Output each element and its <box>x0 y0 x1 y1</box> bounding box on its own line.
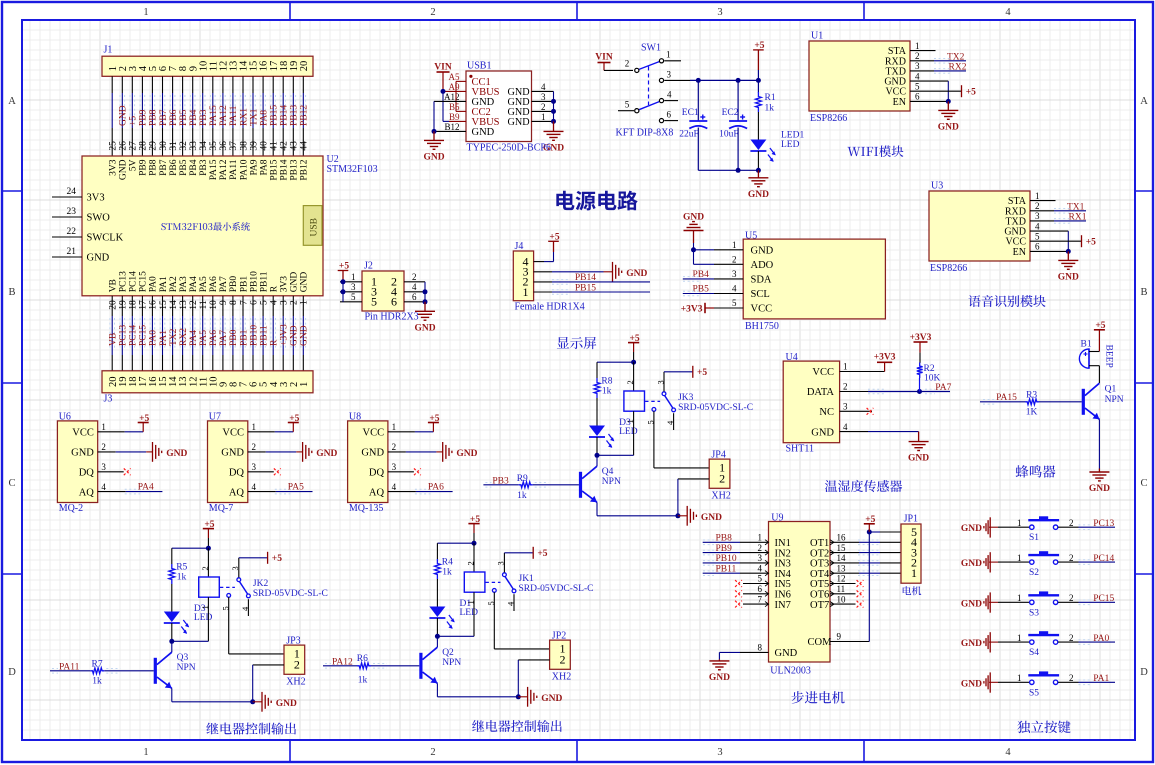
svg-text:EN: EN <box>1013 247 1026 258</box>
net label PC14 <box>129 318 131 350</box>
svg-text:VCC: VCC <box>72 428 94 439</box>
wire J1 pin 8 to U2 pin 32 <box>182 76 184 93</box>
net label PA0 <box>149 318 151 350</box>
svg-text:R: R <box>270 339 280 346</box>
svg-text:3: 3 <box>717 7 722 18</box>
svg-text:SCL: SCL <box>751 289 770 300</box>
wire J1 pin 19 to U2 pin 43 <box>292 76 294 93</box>
svg-text:PA11: PA11 <box>229 105 239 126</box>
net label PA7 <box>220 318 222 350</box>
U9 IN7 stub no-erc <box>743 603 769 605</box>
svg-text:18: 18 <box>129 300 139 310</box>
ground sideways at rail <box>518 696 527 698</box>
svg-text:15: 15 <box>837 543 847 553</box>
svg-text:NPN: NPN <box>1105 395 1124 405</box>
svg-text:PA0: PA0 <box>1093 634 1109 644</box>
svg-text:SHT11: SHT11 <box>786 443 815 454</box>
svg-text:XH2: XH2 <box>711 491 730 502</box>
section label 温湿度传感器 <box>825 480 902 492</box>
svg-text:TX2: TX2 <box>169 328 179 346</box>
svg-text:1: 1 <box>300 300 310 305</box>
svg-text:PB13: PB13 <box>290 105 300 126</box>
svg-text:4: 4 <box>1005 747 1011 758</box>
svg-text:4: 4 <box>915 71 920 81</box>
svg-text:TX1: TX1 <box>249 108 259 126</box>
svg-text:PB6: PB6 <box>169 159 179 176</box>
svg-text:R1: R1 <box>765 93 776 103</box>
svg-text:USB1: USB1 <box>467 61 491 72</box>
relay switch contacts JK3 <box>645 400 660 402</box>
svg-text:2: 2 <box>625 59 630 69</box>
svg-text:PA15: PA15 <box>209 159 219 180</box>
svg-text:5: 5 <box>625 100 630 110</box>
transistor Q3 NPN <box>154 658 157 684</box>
svg-text:2: 2 <box>719 472 725 486</box>
svg-text:PA10: PA10 <box>239 159 249 180</box>
svg-text:GND: GND <box>414 323 435 333</box>
svg-text:PB4: PB4 <box>693 270 710 280</box>
svg-text:9: 9 <box>837 632 842 642</box>
wire USB1 gnd bus right <box>553 91 555 121</box>
resistor R8 1k <box>596 362 598 378</box>
svg-text:2: 2 <box>252 442 257 452</box>
svg-text:PA7: PA7 <box>219 330 229 346</box>
power +5 sideways <box>532 547 534 559</box>
wire J1 pin 10 to U2 pin 34 <box>202 76 204 93</box>
svg-text:PB1: PB1 <box>239 276 249 293</box>
U2 title text <box>161 222 250 231</box>
wire U2 pin 12 to J3 <box>192 296 194 316</box>
wire net PA15 with R3 <box>980 401 1025 403</box>
svg-text:8: 8 <box>758 643 763 653</box>
svg-text:PB15: PB15 <box>270 105 280 126</box>
svg-text:+5: +5 <box>1086 238 1096 248</box>
svg-text:PC15: PC15 <box>1093 594 1114 604</box>
svg-text:PB3: PB3 <box>492 476 509 486</box>
wire U8 GND <box>388 451 406 453</box>
MCU U2 STM32F103 <box>82 156 323 296</box>
svg-text:5: 5 <box>1035 231 1040 241</box>
U9 OT7 stub no-erc <box>830 603 856 605</box>
svg-text:16: 16 <box>149 300 159 310</box>
svg-text:20: 20 <box>299 61 310 72</box>
svg-text:+3V3: +3V3 <box>874 352 896 362</box>
LED D3 <box>171 584 173 612</box>
wire U2 pin 6 to J3 <box>252 296 254 316</box>
section label 继电器控制输出 (2) <box>472 720 562 732</box>
net label TX2 <box>169 318 171 350</box>
svg-text:B12: B12 <box>444 122 459 132</box>
svg-text:GND: GND <box>626 269 647 279</box>
svg-text:R7: R7 <box>92 659 103 669</box>
ground <box>947 101 949 110</box>
transistor Q1 NPN <box>1098 366 1100 383</box>
svg-text:22uF: 22uF <box>679 130 699 140</box>
svg-text:PA12: PA12 <box>219 159 229 180</box>
svg-text:JP1: JP1 <box>904 513 918 524</box>
svg-text:24: 24 <box>67 187 77 197</box>
svg-text:PB9: PB9 <box>716 544 733 554</box>
wire J1 pin 12 to U2 pin 36 <box>222 76 224 93</box>
LED D1 <box>436 579 438 607</box>
svg-text:GND: GND <box>1089 484 1110 494</box>
svg-text:3: 3 <box>1035 211 1040 221</box>
svg-text:GND: GND <box>751 246 774 257</box>
svg-text:PB5: PB5 <box>693 285 710 295</box>
U4 NC stub with no-erc <box>840 410 872 412</box>
svg-text:DQ: DQ <box>79 468 95 479</box>
svg-text:PB3: PB3 <box>199 109 209 126</box>
svg-text:6: 6 <box>758 584 763 594</box>
connector J3 <box>102 371 313 393</box>
net label PB11 <box>260 318 262 350</box>
wire emitter to rail <box>436 683 438 697</box>
wire J1 pin 3 to U2 pin 27 <box>131 76 133 93</box>
svg-text:B: B <box>8 287 15 298</box>
svg-text:14: 14 <box>169 300 179 310</box>
switch S1 <box>1030 525 1034 529</box>
svg-text:GND: GND <box>961 639 982 649</box>
wire LED to coil bottom <box>437 635 474 637</box>
svg-text:GND: GND <box>748 190 769 200</box>
USB1 right pin 4 <box>532 90 554 92</box>
svg-text:Q2: Q2 <box>442 648 454 658</box>
svg-text:B: B <box>1140 287 1147 298</box>
wire U2 pin 14 to J3 <box>172 296 174 316</box>
net label PB0 <box>230 318 232 350</box>
svg-text:LED: LED <box>619 427 638 437</box>
svg-text:1k: 1k <box>517 491 527 501</box>
svg-text:LED: LED <box>194 613 213 623</box>
svg-text:COM: COM <box>808 637 833 648</box>
svg-text:GND: GND <box>423 152 444 162</box>
svg-text:B5: B5 <box>449 102 460 112</box>
SW1 stubs <box>664 60 681 62</box>
svg-text:32: 32 <box>179 141 189 151</box>
svg-text:35: 35 <box>209 141 219 151</box>
capacitor EC2 10uF <box>737 80 739 121</box>
svg-text:PA15: PA15 <box>209 105 219 126</box>
svg-text:2: 2 <box>1069 518 1074 528</box>
svg-text:GND: GND <box>361 448 384 459</box>
svg-text:PB4: PB4 <box>189 159 199 176</box>
svg-text:1k: 1k <box>442 568 452 578</box>
svg-text:5: 5 <box>732 298 737 308</box>
svg-text:EC2: EC2 <box>722 108 739 118</box>
svg-text:R3: R3 <box>1026 390 1037 400</box>
svg-text:PA15: PA15 <box>996 393 1017 403</box>
svg-text:B1: B1 <box>1081 339 1092 349</box>
svg-text:2: 2 <box>101 442 106 452</box>
svg-text:Q4: Q4 <box>602 467 614 477</box>
svg-text:S1: S1 <box>1029 533 1039 543</box>
svg-text:7: 7 <box>239 300 249 305</box>
svg-text:3: 3 <box>392 462 397 472</box>
svg-text:PA4: PA4 <box>189 330 199 346</box>
svg-text:29: 29 <box>149 141 159 151</box>
svg-text:25: 25 <box>109 141 119 151</box>
svg-text:2: 2 <box>541 102 546 112</box>
svg-text:SWCLK: SWCLK <box>87 233 124 244</box>
wire S2 pin1 <box>989 561 998 563</box>
wire +5 node at JK2 <box>172 547 209 549</box>
svg-text:+5: +5 <box>966 88 976 98</box>
svg-text:26: 26 <box>119 141 129 151</box>
U8 DQ stub no-erc <box>388 471 414 473</box>
svg-text:PB7: PB7 <box>159 109 169 126</box>
power +5 sideways <box>267 552 269 564</box>
svg-text:PC15: PC15 <box>139 325 149 346</box>
svg-text:Pin HDR2X3: Pin HDR2X3 <box>365 312 419 323</box>
svg-text:PB11: PB11 <box>259 325 269 346</box>
svg-text:PC14: PC14 <box>1093 554 1114 564</box>
svg-text:1: 1 <box>541 112 546 122</box>
ground <box>1067 251 1069 260</box>
svg-text:LED1: LED1 <box>781 131 804 141</box>
USB1 right pin 3 <box>532 100 554 102</box>
svg-text:ESP8266: ESP8266 <box>810 113 847 124</box>
net label PC15 <box>139 318 141 350</box>
svg-text:GND: GND <box>1058 272 1079 282</box>
svg-text:+5: +5 <box>697 368 707 378</box>
wire U2 pin 13 to J3 <box>182 296 184 316</box>
wire U8 VCC to +5 <box>388 431 415 433</box>
wire J1 pin 16 to U2 pin 40 <box>262 76 264 93</box>
svg-text:3: 3 <box>252 462 257 472</box>
svg-text:1: 1 <box>351 272 356 282</box>
wire U2 pin 7 to J3 <box>242 296 244 316</box>
svg-text:5V: 5V <box>129 159 139 171</box>
svg-text:3: 3 <box>101 462 106 472</box>
svg-text:PB15: PB15 <box>270 159 280 180</box>
svg-text:7: 7 <box>758 594 763 604</box>
svg-text:PB9: PB9 <box>139 109 149 126</box>
svg-text:D: D <box>1140 667 1148 678</box>
svg-text:3: 3 <box>915 61 920 71</box>
wire net PB15 <box>534 291 552 293</box>
USB sub-box on U2 <box>303 206 322 246</box>
B1 terminals <box>1089 351 1099 353</box>
wire net RX2 <box>910 70 934 72</box>
svg-text:PB7: PB7 <box>159 159 169 176</box>
svg-text:6: 6 <box>667 110 672 120</box>
svg-text:3V3: 3V3 <box>280 276 290 293</box>
svg-text:DATA: DATA <box>807 387 835 398</box>
svg-text:PA6: PA6 <box>209 276 219 292</box>
svg-text:2: 2 <box>915 51 920 61</box>
wire U2 pin 9 to J3 <box>222 296 224 316</box>
section label 语音识别模块 <box>968 295 1045 307</box>
ground above U5 (inverted) <box>693 231 695 244</box>
svg-text:ESP8266: ESP8266 <box>930 263 967 274</box>
svg-text:GND: GND <box>316 449 337 459</box>
wire U2 pin 17 to J3 <box>141 296 143 316</box>
svg-text:PA7: PA7 <box>935 383 951 393</box>
svg-text:1: 1 <box>915 41 920 51</box>
svg-text:39: 39 <box>249 141 259 151</box>
relay coil JK2 <box>207 548 209 577</box>
U9 IN5 stub no-erc <box>743 583 769 585</box>
ground at J2 <box>424 302 426 312</box>
svg-text:MQ-135: MQ-135 <box>349 503 383 514</box>
svg-text:3V3: 3V3 <box>109 159 119 176</box>
svg-text:PC13: PC13 <box>119 271 129 292</box>
svg-text:PA8: PA8 <box>259 110 269 126</box>
wire S5 pin1 <box>989 681 998 683</box>
svg-text:DQ: DQ <box>229 468 245 479</box>
svg-text:XH2: XH2 <box>286 677 305 688</box>
svg-text:PA5: PA5 <box>199 276 209 292</box>
svg-text:PB10: PB10 <box>716 554 737 564</box>
wire net PC13 <box>1058 526 1078 528</box>
wire U2 pin 1 to J3 <box>302 296 304 316</box>
net label GND <box>300 318 302 350</box>
wire U2 pin 5 to J3 <box>262 296 264 316</box>
svg-text:AQ: AQ <box>79 487 95 498</box>
wire net PA6 <box>388 491 416 493</box>
wire Q1 emitter to gnd <box>1098 419 1100 468</box>
svg-text:J3: J3 <box>104 394 113 405</box>
svg-text:2: 2 <box>625 380 635 384</box>
LED1 <box>757 112 759 140</box>
U6 DQ stub no-erc <box>98 471 124 473</box>
svg-text:4: 4 <box>1005 7 1011 18</box>
transistor Q4 NPN <box>579 472 582 498</box>
svg-text:1: 1 <box>143 7 148 18</box>
svg-text:1k: 1k <box>177 573 187 583</box>
svg-text:2: 2 <box>1069 633 1074 643</box>
svg-text:27: 27 <box>129 141 139 151</box>
resistor base 1k <box>357 663 371 669</box>
svg-text:Female HDR1X4: Female HDR1X4 <box>515 302 585 313</box>
wire J1 pin 7 to U2 pin 31 <box>172 76 174 93</box>
net label PA4 <box>189 318 191 350</box>
svg-text:PB11: PB11 <box>716 564 737 574</box>
capacitor EC1 22uF <box>697 80 699 121</box>
wire U4 VCC to +3V3 <box>840 371 885 373</box>
svg-text:4: 4 <box>270 300 280 305</box>
svg-text:2: 2 <box>1069 553 1074 563</box>
svg-text:KFT DIP-8X8: KFT DIP-8X8 <box>616 128 674 139</box>
svg-text:SRD-05VDC-SL-C: SRD-05VDC-SL-C <box>519 584 594 594</box>
svg-text:PA11: PA11 <box>59 662 80 672</box>
relay switch contacts JK1 <box>486 581 501 583</box>
svg-text:J2: J2 <box>364 261 373 272</box>
ground below LED1 <box>757 170 759 178</box>
net label PA1 <box>159 318 161 350</box>
svg-text:5: 5 <box>371 295 377 309</box>
svg-text:1: 1 <box>1017 673 1022 683</box>
svg-text:2: 2 <box>392 442 397 452</box>
svg-text:22: 22 <box>67 227 77 237</box>
svg-text:J1: J1 <box>104 45 113 56</box>
svg-text:PB4: PB4 <box>189 109 199 126</box>
svg-text:9: 9 <box>219 300 229 305</box>
svg-text:PA7: PA7 <box>219 276 229 292</box>
wire emitter to rail <box>171 688 173 702</box>
wire JP3 pin2 to gnd rail <box>253 664 284 666</box>
svg-text:VB: VB <box>109 279 119 292</box>
wire U9 OT2 to JP1 <box>830 552 859 554</box>
svg-text:+3V3: +3V3 <box>681 304 703 314</box>
net label VB <box>109 318 111 350</box>
wire U9 OT3 to JP1 <box>830 562 859 564</box>
svg-text:IN7: IN7 <box>775 600 791 611</box>
svg-text:Q3: Q3 <box>177 653 189 663</box>
svg-text:2: 2 <box>465 561 475 565</box>
svg-text:ADO: ADO <box>751 260 774 271</box>
svg-text:GND: GND <box>87 253 110 264</box>
svg-text:MQ-2: MQ-2 <box>59 503 83 514</box>
svg-text:28: 28 <box>139 141 149 151</box>
wire cap bottom rail <box>698 169 758 171</box>
svg-text:R5: R5 <box>176 563 187 573</box>
svg-text:EN: EN <box>893 97 906 108</box>
svg-text:13: 13 <box>179 300 189 310</box>
wire J2 pins row 1 <box>340 291 362 293</box>
svg-text:GND: GND <box>961 679 982 689</box>
svg-text:2: 2 <box>1069 673 1074 683</box>
svg-text:33: 33 <box>189 141 199 151</box>
wire J1 pin 15 to U2 pin 39 <box>252 76 254 93</box>
svg-text:PA5: PA5 <box>199 330 209 346</box>
wire net PA7 / DATA <box>840 391 868 393</box>
svg-text:14: 14 <box>837 553 847 563</box>
wire net TX2 <box>910 60 934 62</box>
svg-text:1: 1 <box>1017 518 1022 528</box>
svg-text:PB14: PB14 <box>280 159 290 180</box>
svg-text:VB: VB <box>109 333 119 346</box>
svg-text:+5: +5 <box>537 549 547 559</box>
svg-text:PB9: PB9 <box>139 159 149 176</box>
label 电机 <box>903 586 922 595</box>
svg-text:GND: GND <box>71 448 94 459</box>
svg-text:USB: USB <box>310 218 320 236</box>
svg-text:5: 5 <box>351 292 356 302</box>
svg-text:PC13: PC13 <box>119 325 129 346</box>
svg-text:XH2: XH2 <box>552 672 571 683</box>
svg-text:GND: GND <box>300 272 310 293</box>
wire U2 pin 19 to J3 <box>121 296 123 316</box>
svg-text:2: 2 <box>294 658 300 672</box>
svg-text:3: 3 <box>280 300 290 305</box>
svg-text:AQ: AQ <box>229 487 245 498</box>
svg-text:1k: 1k <box>602 387 612 397</box>
svg-text:36: 36 <box>219 141 229 151</box>
svg-text:PB8: PB8 <box>149 159 159 176</box>
svg-text:4: 4 <box>732 284 737 294</box>
svg-text:19: 19 <box>119 300 129 310</box>
svg-text:4: 4 <box>667 90 672 100</box>
svg-text:GND: GND <box>709 673 730 683</box>
svg-text:6: 6 <box>412 292 417 302</box>
svg-text:2: 2 <box>732 255 737 265</box>
wire GND-EN <box>1030 230 1068 232</box>
svg-text:RX2: RX2 <box>949 62 967 72</box>
svg-text:U1: U1 <box>811 31 823 42</box>
svg-text:R4: R4 <box>442 558 453 568</box>
svg-text:GND: GND <box>221 448 244 459</box>
ground sideways at rail <box>678 515 687 517</box>
ground sideways <box>302 442 304 462</box>
wire net PB3 <box>483 484 518 486</box>
svg-text:GND: GND <box>290 325 300 346</box>
svg-text:AQ: AQ <box>369 487 385 498</box>
svg-text:2: 2 <box>430 7 435 18</box>
svg-text:41: 41 <box>270 141 280 151</box>
net label PB1 <box>240 318 242 350</box>
svg-text:6: 6 <box>1035 242 1040 252</box>
